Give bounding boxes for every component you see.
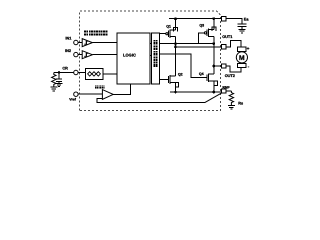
- svg-text:-: -: [248, 64, 250, 69]
- transistor Q1 label: [166, 25, 171, 29]
- label IN1: [65, 37, 71, 41]
- transistor Q4 (NMOS): [207, 66, 218, 92]
- capacitor (supply): [238, 24, 247, 29]
- label Rs: [238, 101, 243, 105]
- ground (osc R): [50, 87, 57, 91]
- svg-text:Rs: Rs: [238, 101, 243, 105]
- buffer U2 (schmitt trigger IN2): [82, 51, 92, 59]
- label comparator (CJK blob): [95, 86, 105, 90]
- top rail VCC: [169, 18, 221, 20]
- wire IN2 to buffer: [78, 54, 82, 56]
- label M: [239, 55, 245, 62]
- wire RNF to Rs: [226, 90, 231, 92]
- label LOGIC: [123, 53, 136, 58]
- node rail-Q1: [174, 17, 177, 20]
- resistor Rs: [229, 91, 233, 105]
- svg-text:Q3: Q3: [199, 24, 204, 28]
- ground (Rs): [228, 106, 235, 110]
- wire Vref to comparator: [78, 93, 102, 95]
- motor M: [236, 47, 247, 67]
- wire buffer2 to LOGIC: [92, 54, 117, 56]
- svg-text:IN1: IN1: [65, 37, 71, 41]
- svg-text:Ea: Ea: [244, 18, 250, 22]
- node CR junction: [58, 71, 61, 74]
- svg-text:Q2: Q2: [178, 72, 183, 76]
- svg-text:+: +: [247, 46, 250, 51]
- wire comparator sense diagonal to RNF: [205, 93, 222, 103]
- driver block (vertical): [151, 33, 159, 84]
- transistor Q4 label: [199, 72, 204, 76]
- svg-text:M: M: [239, 55, 245, 62]
- wire OUT2 to motor: [226, 66, 241, 72]
- label RNF: [222, 86, 230, 90]
- IC boundary dashed box: [79, 11, 220, 110]
- transistor Q2 label: [178, 72, 183, 76]
- svg-text:LOGIC: LOGIC: [123, 53, 136, 58]
- wire gate line Q3: [159, 33, 214, 44]
- node rail-Q3: [212, 17, 215, 20]
- ground (supply cap): [239, 29, 246, 33]
- pin IN2: [74, 52, 78, 56]
- pin CR: [74, 70, 78, 74]
- node OUT2: [212, 65, 215, 68]
- wire IN1 to buffer: [78, 42, 82, 44]
- capacitor C (osc): [56, 73, 62, 84]
- pin Vref: [74, 92, 78, 96]
- wire comparator minus input hook: [97, 98, 205, 102]
- resistor R (osc): [52, 73, 56, 87]
- pin OUT1 (square): [222, 45, 226, 49]
- wire OUT1: [176, 46, 222, 48]
- node rail-Q2: [174, 91, 177, 94]
- transistor Q3 (PMOS): [204, 19, 216, 66]
- label schmitt-input (CJK blob): [84, 31, 107, 36]
- wire CR node: [54, 72, 86, 74]
- svg-text:OUT2: OUT2: [225, 74, 235, 78]
- pin VCC (square): [221, 17, 225, 21]
- svg-text:CR: CR: [62, 67, 68, 71]
- label IN2: [65, 49, 71, 53]
- label Vref: [69, 98, 76, 102]
- wire VCC to Ea: [226, 19, 242, 24]
- label Ea: [244, 18, 250, 22]
- label OUT2: [225, 74, 235, 78]
- ground (osc C): [56, 83, 62, 86]
- wire OUT2: [214, 65, 222, 67]
- label minus: [248, 64, 250, 69]
- wire buffer1 to LOGIC: [92, 42, 117, 44]
- pin RNF (square): [222, 89, 226, 93]
- svg-text:Q1: Q1: [166, 25, 171, 29]
- wire comparator output to LOGIC: [113, 84, 131, 94]
- bottom rail RNF: [170, 91, 222, 93]
- wire LOGIC to driver stubs: [150, 44, 152, 56]
- node rail-Q4: [212, 91, 215, 94]
- label CR: [62, 67, 68, 71]
- label driver (vertical CJK blob): [154, 40, 158, 67]
- svg-text:RNF: RNF: [222, 86, 230, 90]
- label plus: [247, 46, 250, 51]
- wire osc to LOGIC: [103, 73, 117, 75]
- transistor Q3 label: [199, 24, 204, 28]
- wire gate line Q4: [159, 54, 206, 77]
- LOGIC block: [117, 33, 150, 84]
- pin OUT2 (square): [222, 64, 226, 68]
- transistor Q1 (PMOS): [159, 19, 177, 47]
- node Q1 drain upper: [174, 42, 177, 45]
- svg-text:OUT1: OUT1: [222, 35, 232, 39]
- svg-text:Q4: Q4: [199, 72, 204, 76]
- label OUT1: [222, 35, 232, 39]
- op-amp comparator: [102, 90, 113, 100]
- node Q1 drain lower (OUT1): [174, 46, 177, 49]
- node gate line end: [212, 42, 215, 45]
- pin IN1: [74, 40, 78, 44]
- oscillator box: [86, 68, 104, 79]
- svg-text:Vref: Vref: [69, 98, 76, 102]
- wire OUT1 to motor: [226, 41, 241, 48]
- wire gate Q2: [159, 78, 168, 80]
- transistor Q2 (NMOS): [169, 47, 179, 92]
- svg-text:IN2: IN2: [65, 49, 71, 53]
- buffer U1 (schmitt trigger IN1): [82, 39, 92, 47]
